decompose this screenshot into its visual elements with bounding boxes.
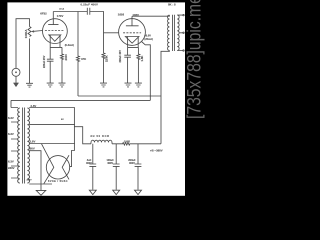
svg-text:100KA: 100KA [24,29,28,38]
wire plate V1 top rail [53,11,87,13]
wire jack sleeve down [15,76,17,83]
T2 secondary taps [177,15,183,50]
svg-text:6.3V: 6.3V [8,159,14,163]
T2 core [173,15,175,51]
wire pot bottom to ground [29,39,31,84]
ground (C4) [89,190,96,194]
svg-text:2mA: 2mA [59,7,64,10]
output transformer T2 primary [168,15,170,50]
resistor R3 47K (plate load) [77,12,80,97]
resistor R4 220K (grid leak) [102,53,105,83]
resistor R2 2400 (cathode) [61,47,64,83]
junction dot [150,95,151,96]
ground (C1) [47,83,54,87]
wire jog to choke [74,127,91,144]
svg-text:400V: 400V [107,162,113,165]
wire V2 plate to OPT [132,15,169,16]
svg-text:400V: 400V [86,162,92,165]
ground (jack) [13,83,18,87]
svg-text:400V: 400V [129,162,135,165]
wire jog to lower rail [149,96,151,100]
V1 cathode legs [50,35,62,48]
svg-text:6.3V: 6.3V [8,116,14,120]
ground (C3) [125,83,132,87]
ground (C5) [113,190,120,194]
svg-text:5K : 8: 5K : 8 [168,3,176,7]
V2 plate [126,16,139,26]
wire B+ long rail [11,100,150,107]
svg-text:47K: 47K [81,57,86,61]
junction dot [74,124,75,125]
capacitor C1 220uF 25V (cathode bypass) [47,47,54,83]
wire tube2 lead to rail [142,42,151,97]
svg-text:220uF 40V: 220uF 40V [119,50,122,63]
ground (pot) [26,83,33,87]
wire grid V2 [104,32,119,34]
capacitor C4 4uF 400V [89,144,96,190]
V2 filament [125,37,138,44]
power transformer T1 left winding [18,108,20,183]
wire 250V tap to CT ground [29,151,41,191]
V1 grid (dashed) [45,30,64,32]
input jack J1 [12,68,20,76]
svg-text:0.22uF 400V: 0.22uF 400V [81,3,99,7]
resistor R6 100R [112,143,161,146]
wire 250V bottom tap [29,183,52,185]
svg-text:5V4G / 5U4C: 5V4G / 5U4C [48,180,68,183]
ground (PSU main) [36,190,46,195]
page background [0,0,208,204]
wire 2.5V tap to choke [29,108,74,167]
choke L1 8H [91,140,112,144]
T1 left taps [11,108,18,179]
wire C2 to grid node [90,12,104,54]
rectifier V3 5V4G envelope [46,156,69,179]
pot wiper arrow [34,30,43,33]
capacitor C5 100uF 400V [113,144,120,190]
T2 secondary [177,15,179,50]
V2 cathode legs [128,37,139,48]
svg-text:230V: 230V [8,166,15,170]
svg-text:2400: 2400 [64,54,68,61]
svg-text:170V: 170V [57,14,64,18]
V1 plate [48,12,58,25]
ground (C6) [135,190,142,194]
svg-text:+B ~365V: +B ~365V [150,148,163,152]
wire OPT primary bottom to B+ [161,51,169,144]
T1 core [23,108,25,184]
V1 filament [49,35,61,41]
wire jack top to pot [16,19,30,69]
svg-text:6.3V: 6.3V [8,132,14,136]
wire 5V tap2 [29,124,74,126]
V3 filament X [42,144,70,184]
wire 2.5V tap B to rectifier [29,143,74,145]
svg-text:250V: 250V [27,180,33,182]
resistor R5 1.8K (cathode) [137,47,140,83]
T1 right winding [27,108,29,183]
ground (R2) [59,83,66,87]
svg-text:2.5V: 2.5V [31,104,37,108]
potentiometer 100KA [28,27,31,37]
svg-text:6F32: 6F32 [40,12,47,16]
svg-text:185V: 185V [133,13,140,17]
svg-text:220K: 220K [104,55,108,62]
svg-text:(25mA): (25mA) [144,38,153,41]
svg-text:1.8K: 1.8K [140,56,144,62]
tube V1 6F32 envelope [43,19,68,44]
ground (R4) [100,83,107,87]
ground (R5) [135,83,142,87]
svg-text:220uF 25V: 220uF 25V [43,55,46,68]
svg-text:250V: 250V [28,146,35,150]
wire B+ upper rail [78,95,161,97]
capacitor C3 220uF 40V (cathode bypass) [124,47,131,83]
svg-text:8H 50 DCR: 8H 50 DCR [91,135,110,138]
svg-text:(0.4mA): (0.4mA) [65,44,74,47]
capacitor C6 200uF 400V [135,144,142,190]
svg-text:1626: 1626 [118,12,125,16]
tube V2 1626 envelope [119,19,146,46]
capacitor C2 0.22uF 400V coupling [87,8,90,15]
svg-text:2.5V: 2.5V [30,139,36,143]
V2 grid (dashed) [123,32,141,34]
svg-text:[735x788]upic.me: [735x788]upic.me [183,0,205,119]
svg-text:100R: 100R [124,140,130,143]
